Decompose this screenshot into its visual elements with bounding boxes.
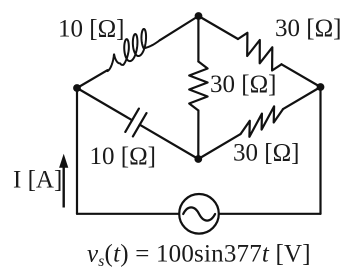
wire bottom-right resistor to right node	[283, 87, 321, 109]
node top	[195, 12, 203, 20]
wire left node to inductor	[77, 70, 107, 88]
svg-text:30 [Ω]: 30 [Ω]	[210, 71, 276, 98]
node right	[317, 83, 325, 91]
capacitor plate 2	[133, 113, 147, 136]
wire left node to capacitor	[77, 88, 132, 120]
AC source sine wave	[183, 207, 215, 220]
wire top node to top-right resistor	[199, 16, 239, 39]
wire bottom horizontal	[77, 213, 321, 215]
svg-text:10 [Ω]: 10 [Ω]	[90, 143, 156, 170]
wire middle resistor to bottom node	[197, 111, 199, 160]
AC source circle	[179, 194, 219, 234]
wire top-right resistor to right node	[282, 64, 321, 87]
svg-text:10 [Ω]: 10 [Ω]	[58, 16, 124, 43]
resistor 30 ohm middle	[189, 62, 207, 111]
svg-text:I [A]: I [A]	[13, 167, 62, 194]
current arrow I shaft	[63, 166, 65, 208]
capacitor plate 1	[125, 109, 139, 132]
wire right vertical	[319, 87, 321, 214]
wire left vertical	[76, 88, 78, 214]
svg-text:30 [Ω]: 30 [Ω]	[233, 140, 299, 167]
wire bottom node to bottom-right resistor	[198, 134, 240, 159]
resistor 30 ohm top-right	[238, 33, 282, 71]
resistor 30 ohm bottom-right	[241, 106, 284, 136]
node bottom	[194, 155, 202, 163]
current arrow head	[59, 154, 68, 168]
wire inductor to top node	[160, 16, 198, 40]
svg-text:30 [Ω]: 30 [Ω]	[275, 15, 341, 42]
wire capacitor to bottom node	[140, 125, 199, 159]
svg-text:vs(t) = 100sin377t [V]: vs(t) = 100sin377t [V]	[87, 241, 311, 271]
inductor coil 10 ohm	[108, 29, 160, 71]
wire top node down to middle resistor	[197, 16, 199, 62]
node left	[73, 84, 81, 92]
